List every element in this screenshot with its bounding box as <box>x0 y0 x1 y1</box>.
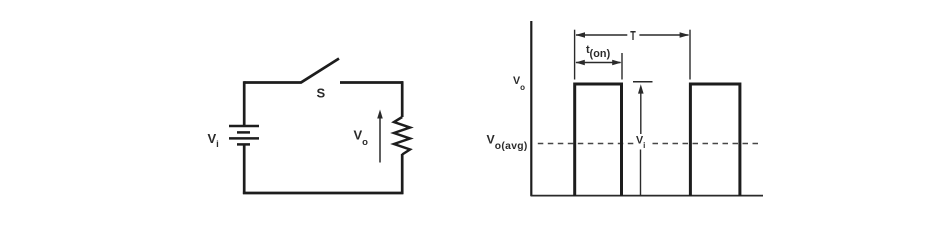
dimension t(on) line <box>576 62 621 64</box>
battery Vi plate 4 short <box>237 143 250 146</box>
pulse 1 <box>575 84 622 196</box>
Vi indicator line (below label) <box>640 150 642 197</box>
wire right vertical (bottom) <box>401 154 404 194</box>
pulse 2 <box>690 84 740 196</box>
battery Vi plate 3 long <box>229 137 259 140</box>
svg-text:S: S <box>317 85 326 100</box>
extension line left (T and t(on)) <box>574 30 576 80</box>
extension line right of T <box>689 30 691 80</box>
Vi indicator arrow (up) <box>638 84 644 93</box>
switch S blade <box>301 59 340 83</box>
dimension T arrowhead right <box>680 32 690 38</box>
battery Vi plate 1 long <box>229 125 259 128</box>
wire left vertical (bottom) <box>243 144 246 194</box>
battery Vi plate 2 short <box>237 131 250 134</box>
dashed line Vo(avg) level <box>534 143 634 145</box>
svg-text:T: T <box>630 30 636 44</box>
wire left vertical (top) <box>243 81 246 126</box>
dimension t(on) arrowhead right <box>612 60 621 65</box>
wire top-left segment <box>244 81 301 84</box>
dimension T line right part <box>639 34 688 36</box>
switch S right contact wire <box>340 81 403 84</box>
arrow Vo <box>379 115 381 163</box>
extension line right of t(on) <box>621 53 623 80</box>
y axis <box>530 21 532 196</box>
wire bottom <box>243 192 404 195</box>
dimension T line left part <box>576 34 627 36</box>
resistor load <box>394 117 410 155</box>
wire right vertical (top) <box>401 81 404 117</box>
dimension T arrowhead left <box>575 32 585 38</box>
Vi indicator top tick <box>633 81 653 83</box>
dimension t(on) arrowhead left <box>575 60 584 65</box>
svg-text:(on): (on) <box>590 48 611 60</box>
x axis <box>531 195 764 197</box>
